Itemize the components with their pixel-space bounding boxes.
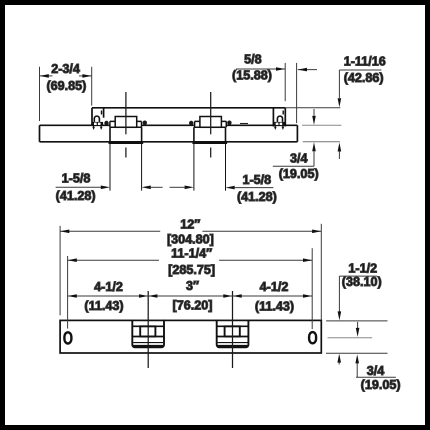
bar bottom view bbox=[60, 320, 321, 353]
svg-text:1-11/16: 1-11/16 bbox=[344, 54, 386, 68]
svg-text:4-1/2: 4-1/2 bbox=[94, 280, 123, 294]
svg-text:(11.43): (11.43) bbox=[84, 299, 123, 313]
svg-text:(38.10): (38.10) bbox=[342, 275, 382, 289]
block 2 bbox=[217, 320, 249, 348]
svg-text:(41.28): (41.28) bbox=[237, 190, 277, 204]
dim 3/4 top bbox=[273, 109, 319, 181]
dim 2-3/4 bbox=[40, 62, 92, 121]
right extension lines top view bbox=[285, 108, 341, 142]
svg-text:(41.28): (41.28) bbox=[56, 189, 96, 203]
deck bar side view bbox=[40, 125, 298, 142]
svg-text:3″: 3″ bbox=[186, 279, 199, 293]
right extension lines bottom view bbox=[326, 321, 388, 353]
block 2 centerline bbox=[232, 291, 234, 368]
valve 2 centerline bbox=[210, 92, 212, 158]
valve 1 bbox=[104, 117, 147, 191]
svg-text:1-1/2: 1-1/2 bbox=[348, 262, 377, 276]
upper body bar bbox=[92, 108, 285, 127]
block 1 centerline bbox=[147, 291, 149, 368]
arrows between valve bodies bbox=[142, 186, 194, 190]
hole left bbox=[64, 332, 71, 343]
hidden dash between valves bbox=[240, 123, 248, 125]
dim 11-1/4 inch bbox=[68, 247, 313, 330]
clip right bbox=[274, 111, 285, 131]
svg-text:1-5/8: 1-5/8 bbox=[242, 173, 271, 187]
svg-text:(42.86): (42.86) bbox=[344, 71, 384, 85]
svg-text:(15.88): (15.88) bbox=[232, 68, 272, 82]
dim 1-11/16 bbox=[338, 54, 386, 159]
dim 3/4 bottom bbox=[355, 322, 400, 392]
svg-text:[285.75]: [285.75] bbox=[168, 263, 215, 277]
svg-text:(19.05): (19.05) bbox=[361, 378, 401, 392]
dim chain 4-1/2 / 3 / 4-1/2 bbox=[68, 279, 313, 313]
dim 1-1/2 bbox=[337, 262, 381, 365]
block 1 bbox=[132, 320, 164, 348]
hole right bbox=[309, 332, 316, 343]
dim 5/8 bbox=[232, 52, 317, 123]
svg-text:3/4: 3/4 bbox=[367, 364, 385, 378]
valve 1 centerline bbox=[125, 92, 127, 158]
svg-text:12″: 12″ bbox=[180, 218, 200, 232]
dim 12 inch bbox=[60, 218, 321, 320]
svg-text:2-3/4: 2-3/4 bbox=[51, 62, 80, 76]
valve 2 bbox=[189, 117, 232, 191]
svg-text:[76.20]: [76.20] bbox=[173, 299, 213, 313]
svg-text:3/4: 3/4 bbox=[290, 152, 308, 166]
dim 1-5/8 right bbox=[226, 173, 277, 204]
svg-text:11-1/4″: 11-1/4″ bbox=[171, 247, 212, 261]
svg-text:[304.80]: [304.80] bbox=[167, 233, 214, 247]
svg-text:(69.85): (69.85) bbox=[46, 79, 86, 93]
dim 1-5/8 left bbox=[56, 172, 110, 203]
clip left bbox=[92, 111, 103, 131]
svg-text:1-5/8: 1-5/8 bbox=[62, 172, 91, 186]
svg-text:(19.05): (19.05) bbox=[279, 167, 319, 181]
svg-text:(11.43): (11.43) bbox=[255, 299, 294, 313]
svg-text:5/8: 5/8 bbox=[244, 52, 262, 66]
svg-text:4-1/2: 4-1/2 bbox=[260, 280, 289, 294]
